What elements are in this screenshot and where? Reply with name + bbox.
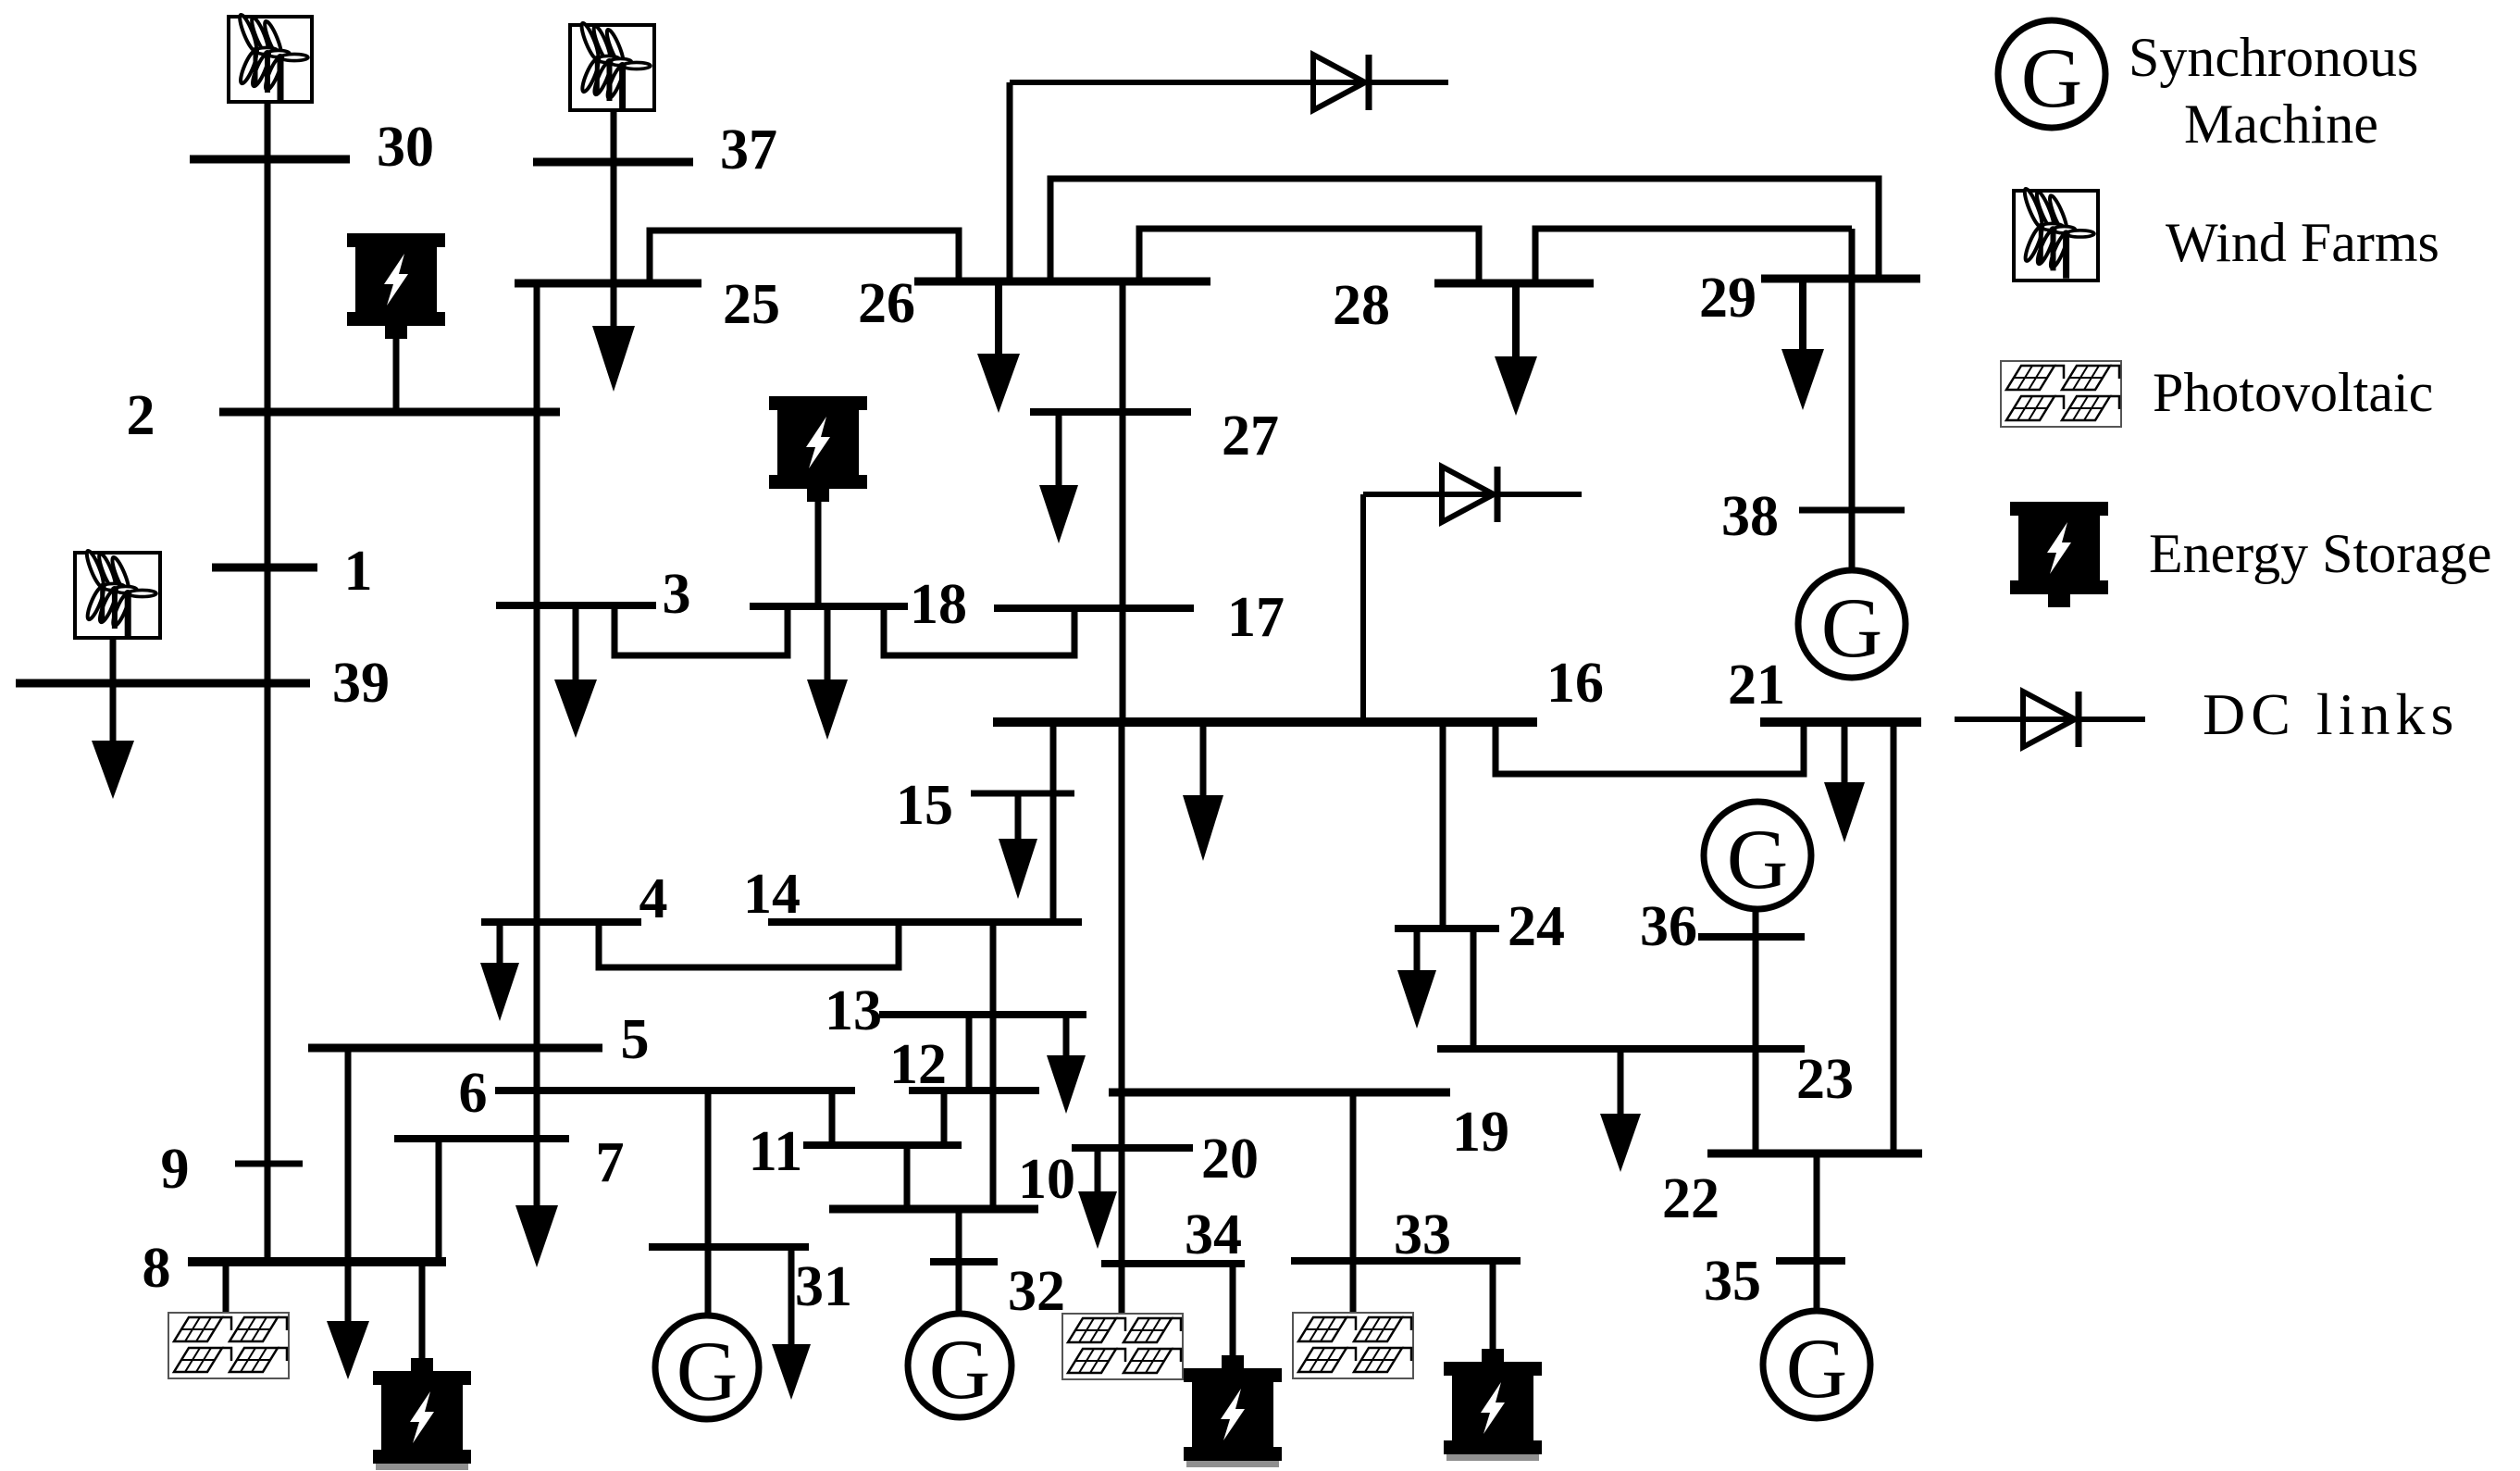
load arrow below bus 26 — [977, 281, 1020, 413]
wire spine bus30-2-1-39-9-8 x289 — [265, 104, 271, 1262]
svg-text:Wind Farms: Wind Farms — [2166, 212, 2439, 273]
wire link bus29-bus38-G — [1849, 229, 1856, 570]
energy storage at bus 8 — [373, 1358, 471, 1470]
bus 17 — [994, 605, 1194, 612]
bus 26 — [914, 278, 1210, 286]
load arrow below bus 20 — [1078, 1148, 1117, 1249]
svg-text:37: 37 — [720, 118, 777, 181]
svg-text:12: 12 — [889, 1033, 947, 1096]
wire DC link 1 riser at bus 26 — [1007, 82, 1013, 281]
svg-text:6: 6 — [459, 1062, 488, 1125]
svg-text:24: 24 — [1508, 895, 1565, 958]
wire link bus16-bus15-bus14 — [1050, 722, 1057, 922]
svg-text:26: 26 — [858, 272, 915, 335]
load arrow below bus 23 — [1600, 1049, 1641, 1172]
wire DC link 2 horizontal — [1363, 492, 1582, 497]
photovoltaic PV at bus 34 — [1062, 1314, 1183, 1379]
svg-text:15: 15 — [896, 774, 953, 837]
bus 10 — [829, 1205, 1038, 1214]
load arrow below bus 15 — [999, 793, 1037, 899]
svg-text:29: 29 — [1699, 267, 1757, 330]
bus 36 — [1698, 933, 1805, 941]
wire DC link 1 horizontal — [1010, 80, 1448, 85]
generator G38 — [1798, 570, 1906, 678]
bus 35 — [1776, 1257, 1845, 1265]
wire link bus16-bus24 — [1440, 722, 1446, 929]
wire link bus10-bus32-G — [956, 1209, 962, 1314]
svg-text:7: 7 — [596, 1131, 625, 1194]
svg-text:2: 2 — [127, 384, 155, 447]
legend DC link diode — [2023, 692, 2079, 747]
svg-text:G: G — [929, 1322, 990, 1416]
bus 3 — [496, 602, 656, 609]
bus 21 — [1760, 717, 1921, 727]
load arrow below bus 18 — [807, 606, 848, 740]
bus 18 — [750, 603, 908, 610]
svg-text:Energy Storage: Energy Storage — [2149, 523, 2491, 584]
wire wind2 stem through bus37 to bus25 — [611, 112, 617, 326]
load arrow below bus 27 — [1039, 412, 1078, 543]
svg-text:Machine: Machine — [2184, 93, 2378, 155]
wire link bus5-bus8 — [345, 1048, 352, 1321]
svg-text:14: 14 — [743, 863, 801, 926]
wire spine bus25-2-3-4-5-6-7 x580 — [534, 283, 540, 1205]
load arrow below bus 4 — [480, 922, 519, 1021]
svg-text:20: 20 — [1201, 1128, 1259, 1191]
wire bus34-storage — [1230, 1264, 1236, 1355]
generator G31 — [655, 1315, 759, 1419]
wire storage1 to bus2 — [393, 339, 400, 412]
svg-text:G: G — [1821, 580, 1882, 675]
wire storage2 to bus18 — [815, 496, 822, 606]
svg-text:Synchronous: Synchronous — [2129, 27, 2418, 88]
wire link bus11-bus10 — [904, 1145, 911, 1209]
bus 32 — [930, 1258, 998, 1265]
svg-text:DC links: DC links — [2203, 681, 2459, 747]
wire wind3 stem through bus39 — [110, 640, 117, 741]
diode DC link 1 — [1313, 55, 1369, 110]
bus 16 — [993, 717, 1537, 727]
svg-text:18: 18 — [910, 573, 967, 636]
generator G35 — [1763, 1311, 1870, 1418]
bus 33 — [1291, 1257, 1521, 1265]
svg-text:27: 27 — [1222, 405, 1279, 467]
svg-text:10: 10 — [1018, 1148, 1075, 1211]
wire link bus14-bus13-bus10 — [990, 922, 997, 1209]
wire link bus19-bus33-PV — [1350, 1092, 1357, 1313]
svg-text:13: 13 — [825, 979, 882, 1042]
wire link bus16-bus21 — [1496, 722, 1804, 774]
bus 22 — [1707, 1150, 1922, 1158]
wire link bus12-bus11 — [941, 1091, 948, 1145]
svg-text:30: 30 — [377, 116, 434, 179]
svg-text:36: 36 — [1640, 895, 1697, 958]
energy storage at bus 34 — [1184, 1355, 1282, 1467]
photovoltaic PV at bus 33 — [1293, 1313, 1413, 1378]
bus 5 — [308, 1044, 602, 1053]
svg-text:8: 8 — [143, 1237, 171, 1300]
wire link G36-bus36-bus23-bus22 — [1753, 909, 1759, 1153]
bus 30 — [190, 156, 350, 164]
svg-text:17: 17 — [1227, 586, 1285, 649]
wire bus33-storage — [1490, 1261, 1496, 1349]
wire link bus13-bus12 — [966, 1015, 973, 1091]
wire link bus25-bus26 — [650, 231, 959, 283]
wire link bus18-bus17 — [884, 606, 1074, 655]
energy storage at bus 18 — [769, 396, 867, 502]
svg-text:1: 1 — [344, 540, 373, 603]
svg-text:4: 4 — [639, 867, 668, 930]
svg-text:38: 38 — [1721, 485, 1779, 548]
svg-text:G: G — [2021, 31, 2082, 125]
bus 11 — [803, 1141, 962, 1149]
svg-text:Photovoltaic: Photovoltaic — [2153, 362, 2433, 423]
bus 27 — [1030, 408, 1191, 416]
svg-text:5: 5 — [621, 1008, 650, 1071]
bus 31 bar — [649, 1243, 809, 1251]
wire bus8-storage — [419, 1262, 426, 1358]
svg-text:16: 16 — [1546, 652, 1604, 715]
load arrow below bus 21 — [1824, 722, 1865, 842]
bus 29 — [1761, 275, 1920, 283]
legend photovoltaic symbol — [2001, 361, 2121, 427]
bus 7 — [394, 1135, 569, 1142]
load arrow below bus 29 — [1781, 279, 1824, 410]
svg-text:23: 23 — [1796, 1048, 1854, 1111]
wire link bus26-bus29 — [1050, 179, 1879, 281]
bus 34 — [1101, 1260, 1245, 1267]
svg-text:28: 28 — [1333, 274, 1390, 337]
wire link bus6-bus31-G — [705, 1091, 712, 1315]
wire link bus26-bus27-bus17-bus16 — [1120, 281, 1126, 722]
legend DC link line — [1955, 717, 2145, 722]
load arrow below bus 3 — [554, 605, 597, 738]
load arrow below bus 8 — [327, 1321, 369, 1379]
svg-text:35: 35 — [1704, 1250, 1761, 1313]
bus 24 — [1395, 925, 1499, 932]
svg-text:33: 33 — [1394, 1203, 1451, 1266]
bus 6 — [495, 1087, 855, 1094]
svg-text:19: 19 — [1452, 1101, 1509, 1164]
bus 25 — [515, 280, 701, 288]
bus 4 — [481, 918, 641, 926]
load arrow below bus 28 — [1495, 283, 1537, 416]
photovoltaic PV at bus 8 — [168, 1313, 289, 1378]
bus 1 — [212, 564, 317, 572]
wind farm at bus 39 — [75, 549, 160, 638]
svg-text:9: 9 — [161, 1138, 190, 1201]
wire link bus16-bus19-bus20-bus34-PV — [1119, 722, 1125, 1314]
load arrow below bus 13 — [1047, 1015, 1086, 1114]
bus 15 — [971, 791, 1074, 797]
wire link bus3-bus18 — [614, 605, 788, 655]
bus 38 — [1799, 507, 1905, 514]
svg-text:G: G — [1727, 812, 1788, 906]
svg-text:11: 11 — [749, 1120, 803, 1183]
wire bus8-PV — [223, 1262, 230, 1313]
load arrow below bus 31 — [772, 1247, 811, 1400]
wire link bus7-bus8 — [436, 1139, 442, 1262]
bus 9 — [235, 1161, 303, 1167]
load arrow below bus 24 — [1397, 929, 1436, 1028]
svg-text:22: 22 — [1662, 1167, 1719, 1230]
svg-text:21: 21 — [1728, 654, 1785, 717]
load arrow below bus 25 — [592, 326, 635, 392]
svg-text:25: 25 — [723, 273, 780, 336]
wire link bus6-bus11 — [829, 1091, 836, 1145]
bus 12 — [909, 1087, 1039, 1094]
legend wind farms symbol — [2014, 187, 2098, 280]
bus 37 — [533, 158, 693, 167]
svg-text:G: G — [1786, 1321, 1847, 1415]
generator G32 — [908, 1314, 1012, 1417]
legend synchronous machine symbol — [1998, 20, 2105, 128]
diode DC link 2 — [1442, 467, 1497, 522]
bus 13 — [879, 1011, 1086, 1018]
svg-text:G: G — [677, 1324, 738, 1418]
bus 14 — [768, 918, 1082, 926]
wind farm at bus 30 — [229, 13, 312, 102]
svg-text:31: 31 — [795, 1255, 852, 1318]
energy storage at bus 2 — [347, 233, 445, 339]
energy storage at bus 33 — [1444, 1349, 1542, 1461]
wire link bus21-bus22 — [1891, 722, 1897, 1153]
bus 19 — [1109, 1089, 1450, 1097]
wire link bus4-bus14 — [599, 922, 899, 967]
svg-text:3: 3 — [663, 563, 691, 626]
legend energy storage symbol — [2010, 502, 2108, 607]
bus 2 — [219, 408, 560, 417]
wire link bus28-bus29 — [1535, 229, 1852, 283]
wire link bus26-bus28 — [1139, 229, 1479, 283]
load arrow below bus 16 — [1183, 722, 1223, 861]
svg-text:34: 34 — [1185, 1203, 1242, 1266]
svg-text:32: 32 — [1008, 1260, 1065, 1323]
bus 39 — [16, 679, 310, 688]
bus 28 — [1434, 280, 1594, 288]
bus 8 — [188, 1257, 446, 1266]
load arrow below bus 7 — [515, 1205, 558, 1267]
generator G36 — [1704, 802, 1811, 909]
wire DC link 2 riser at bus 16 — [1360, 494, 1366, 722]
svg-text:39: 39 — [332, 652, 390, 715]
wind farm at bus 37 — [570, 21, 654, 110]
load arrow below bus 39 — [92, 741, 134, 799]
wire link bus24-bus23 — [1471, 929, 1477, 1049]
bus 20 — [1072, 1144, 1193, 1152]
bus 23 — [1437, 1045, 1805, 1053]
wire link bus22-bus35-G — [1814, 1153, 1820, 1311]
